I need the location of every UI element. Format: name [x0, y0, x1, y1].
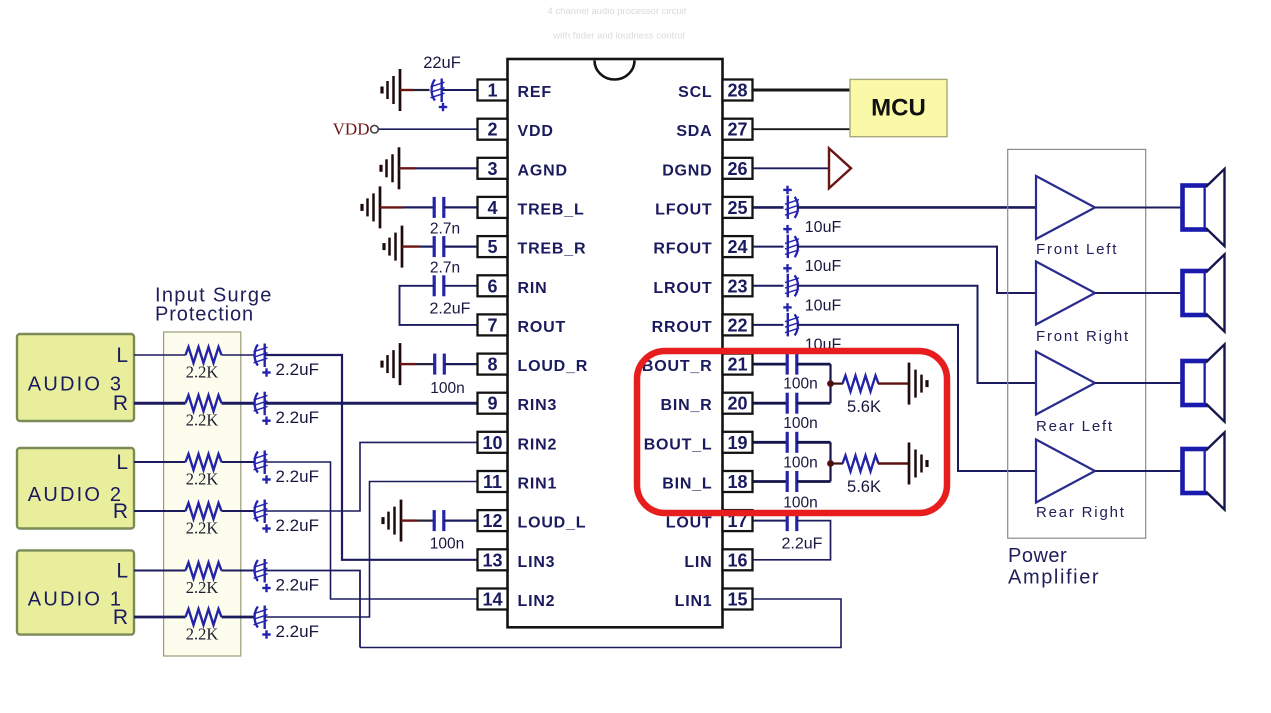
capacitor C3 2.2uF [254, 451, 268, 475]
svg-text:Amplifier: Amplifier [1008, 567, 1100, 589]
pin box 14 [478, 589, 508, 610]
svg-text:25: 25 [727, 198, 747, 218]
pin box 22 [723, 314, 753, 335]
svg-text:L: L [116, 451, 128, 474]
polarity plus (C15) [783, 264, 791, 272]
svg-text:RIN: RIN [518, 280, 548, 297]
pin box 3 [478, 158, 508, 179]
svg-text:14: 14 [482, 590, 502, 610]
wire LROUT to amplifier [797, 286, 1036, 383]
resistor R2 2.2K [186, 395, 222, 411]
wire LOUT stub [753, 520, 787, 522]
svg-text:BIN_L: BIN_L [662, 476, 712, 493]
wire LFOUT to amplifier [797, 206, 1036, 209]
ground at REF [382, 69, 400, 111]
svg-text:15: 15 [727, 590, 747, 610]
capacitor C10 2.2uF [434, 275, 444, 296]
wire R8 to ground [878, 462, 909, 464]
wire to C12 [417, 519, 434, 521]
capacitor C12 100n [434, 510, 444, 531]
pin box 16 [723, 549, 753, 570]
wire AUDIO3 R resistor to capacitor [222, 402, 255, 405]
svg-text:BOUT_L: BOUT_L [644, 436, 713, 453]
svg-text:5.6K: 5.6K [847, 398, 881, 416]
svg-text:BOUT_R: BOUT_R [642, 358, 713, 375]
wire SDA to MCU [753, 128, 850, 130]
wire C11 to pin 8 [444, 363, 477, 365]
pin box 8 [478, 354, 508, 375]
wire SCL to MCU [753, 89, 850, 92]
speaker Rear Left [1183, 344, 1225, 421]
wire C12 to pin 12 [444, 519, 478, 521]
svg-text:R: R [113, 606, 128, 629]
svg-text:SCL: SCL [678, 84, 712, 101]
svg-text:VDD: VDD [518, 123, 554, 140]
svg-text:10uF: 10uF [805, 297, 842, 314]
pin box 12 [478, 510, 508, 531]
svg-text:2.2uF: 2.2uF [276, 516, 319, 535]
capacitor C11 100n [435, 354, 445, 375]
wire U3 output [1095, 292, 1183, 294]
svg-text:2.2K: 2.2K [186, 363, 219, 382]
wire ground to C9 [402, 245, 420, 247]
svg-text:2.2uF: 2.2uF [276, 467, 319, 486]
wire AUDIO1 R box to resistor [134, 616, 186, 619]
svg-text:Front Left: Front Left [1036, 241, 1118, 258]
wire AUDIO1 R resistor to capacitor [222, 616, 255, 619]
pin box 5 [478, 236, 508, 257]
svg-text:LFOUT: LFOUT [655, 201, 712, 218]
svg-text:2.2K: 2.2K [186, 519, 219, 538]
wire to C7 [414, 89, 430, 91]
pin box 25 [723, 197, 753, 218]
capacitor C1 2.2uF [254, 344, 268, 368]
capacitor C19 100n [787, 432, 797, 453]
polarity plus (C13) [783, 186, 791, 194]
wire LROUT stub [753, 285, 784, 287]
pin box 17 [723, 510, 753, 531]
svg-text:MCU: MCU [871, 95, 926, 122]
svg-text:TREB_L: TREB_L [518, 201, 585, 218]
svg-text:LOUD_R: LOUD_R [518, 358, 589, 375]
svg-text:LOUD_L: LOUD_L [518, 515, 587, 532]
pin box 6 [478, 275, 508, 296]
pin box 10 [478, 432, 508, 453]
wire LFOUT stub [753, 206, 784, 209]
svg-text:with fader and loudness contro: with fader and loudness control [552, 31, 685, 42]
polarity plus (AUDIO1 L) [262, 584, 270, 592]
svg-text:24: 24 [727, 237, 747, 257]
audio source box AUDIO 1 [17, 550, 134, 634]
svg-text:Power: Power [1008, 545, 1067, 567]
ground at LOUD_R [382, 343, 400, 385]
resistor R4 2.2K [186, 503, 222, 519]
pin box 20 [723, 393, 753, 414]
svg-text:2.7n: 2.7n [430, 221, 460, 238]
svg-text:VDD: VDD [333, 120, 370, 139]
svg-text:AGND: AGND [518, 162, 568, 179]
svg-text:18: 18 [727, 472, 747, 492]
capacitor C9 2.7n [434, 236, 444, 257]
svg-text:2.2uF: 2.2uF [276, 622, 319, 641]
junction node B [827, 460, 834, 467]
svg-text:100n: 100n [783, 495, 817, 512]
svg-text:DGND: DGND [662, 162, 712, 179]
svg-text:10uF: 10uF [805, 219, 842, 236]
capacitor C17 100n [787, 354, 797, 375]
svg-text:4 channel audio processor circ: 4 channel audio processor circuit [548, 6, 687, 17]
wire C8 to pin 4 [444, 206, 478, 208]
wire AUDIO2 L box to resistor [134, 461, 186, 463]
wire bottom rail to LIN1 (pin15) [360, 599, 841, 648]
wire AUDIO3 L to LIN3 (pin13) [265, 355, 478, 560]
wire AUDIO2 L resistor to capacitor [222, 461, 255, 463]
pin box 19 [723, 432, 753, 453]
wire to C11 [416, 363, 434, 365]
wire RFOUT stub [753, 246, 784, 248]
resistor R5 2.2K [186, 563, 222, 579]
wire BIN_L to node [797, 480, 831, 483]
svg-text:100n: 100n [430, 536, 464, 553]
svg-text:LROUT: LROUT [653, 280, 712, 297]
svg-text:LIN3: LIN3 [518, 554, 556, 571]
pin box 9 [478, 393, 508, 414]
resistor R8 5.6K [843, 456, 879, 472]
ground at LOUD_L [383, 500, 401, 542]
svg-text:R: R [113, 500, 128, 523]
polarity plus (AUDIO1 R) [262, 630, 270, 638]
IC pin-1 notch [595, 61, 635, 80]
ground at R8 [909, 443, 927, 485]
pin box 26 [723, 158, 753, 179]
wire RROUT to amplifier [797, 325, 1036, 471]
op-amp U5 (Rear Right) [1036, 440, 1095, 503]
svg-text:BIN_R: BIN_R [660, 397, 712, 414]
svg-text:2: 2 [487, 120, 497, 140]
wire node to R8 [831, 462, 844, 464]
capacitor C15 10uF [785, 274, 799, 298]
svg-text:11: 11 [483, 472, 502, 492]
svg-text:21: 21 [727, 355, 747, 375]
svg-text:1: 1 [487, 81, 497, 101]
wire BOUT_R stub [753, 363, 787, 366]
svg-text:LIN: LIN [684, 554, 712, 571]
svg-text:Protection: Protection [155, 304, 254, 326]
ground at R7 [909, 363, 927, 405]
wire BOUT_R to node [797, 363, 831, 366]
node VDD terminal [371, 125, 379, 133]
svg-text:TREB_R: TREB_R [518, 241, 587, 258]
speaker Front Left [1183, 169, 1225, 246]
svg-text:RIN3: RIN3 [518, 397, 558, 414]
wire U5 output [1095, 470, 1183, 472]
pin box 18 [723, 471, 753, 492]
wire AUDIO2 R resistor to capacitor [222, 510, 255, 512]
svg-text:6: 6 [487, 276, 497, 296]
svg-text:2.2K: 2.2K [186, 411, 219, 430]
wire R7 to ground [878, 382, 909, 384]
svg-text:L: L [116, 560, 128, 583]
wire AGND ground maroon [399, 167, 416, 169]
wire ground to C11 [400, 363, 416, 365]
wire AUDIO1 L box to resistor [134, 570, 186, 572]
wire AUDIO2 R box to resistor [134, 510, 186, 512]
svg-text:23: 23 [727, 276, 747, 296]
capacitor C14 10uF [785, 235, 799, 259]
red highlight box [637, 351, 947, 513]
pin box 23 [723, 275, 753, 296]
pin box 21 [723, 354, 753, 375]
svg-text:RIN1: RIN1 [518, 476, 558, 493]
capacitor C18 100n [787, 393, 797, 414]
svg-text:10uF: 10uF [805, 258, 842, 275]
wire C10 to pin 6 [444, 285, 478, 287]
resistor R6 2.2K [186, 609, 222, 625]
capacitor C5 2.2uF [254, 559, 268, 583]
resistor R3 2.2K [186, 454, 222, 470]
wire BOUT_R/BIN_R join [829, 364, 831, 403]
svg-text:2.2uF: 2.2uF [276, 576, 319, 595]
svg-text:100n: 100n [783, 376, 817, 393]
svg-text:22: 22 [727, 315, 747, 335]
wire BIN_R to node [797, 402, 831, 405]
op-amp U3 (Front Right) [1036, 262, 1095, 325]
svg-text:28: 28 [727, 81, 747, 101]
wire AUDIO1 R to RIN1 (pin11) [265, 482, 478, 618]
wire VDD to pin 2 [379, 128, 478, 130]
svg-text:2.2uF: 2.2uF [276, 408, 319, 427]
svg-text:2.2uF: 2.2uF [276, 360, 319, 379]
svg-text:26: 26 [727, 159, 747, 179]
svg-text:AUDIO 2: AUDIO 2 [28, 484, 123, 506]
capacitor C8 2.7n [434, 197, 444, 218]
svg-text:100n: 100n [430, 380, 464, 397]
MCU block [850, 79, 947, 136]
wire U2 output [1095, 207, 1183, 209]
capacitor C21 2.2uF [787, 510, 797, 531]
svg-text:3: 3 [487, 159, 497, 179]
polarity plus (AUDIO2 R) [262, 524, 270, 532]
svg-text:20: 20 [727, 394, 747, 414]
wire ground to C8 [380, 206, 403, 208]
svg-text:2.7n: 2.7n [430, 260, 460, 277]
wire ground to C7 [400, 89, 414, 91]
svg-text:2.2K: 2.2K [186, 470, 219, 489]
ground at TREB_R [384, 226, 402, 268]
svg-text:16: 16 [727, 550, 747, 570]
svg-text:Rear Right: Rear Right [1036, 504, 1126, 521]
wire U4 output [1095, 382, 1183, 384]
svg-text:LIN1: LIN1 [675, 593, 713, 610]
svg-text:2.2K: 2.2K [186, 625, 219, 644]
pin box 13 [478, 549, 508, 570]
svg-text:2.2uF: 2.2uF [430, 301, 471, 318]
wire C7 to pin 1 [443, 89, 478, 91]
polarity plus (AUDIO2 L) [262, 475, 270, 483]
svg-text:L: L [116, 344, 128, 367]
wire RFOUT to amplifier [797, 247, 1036, 293]
wire BIN_L stub [753, 480, 787, 483]
polarity plus (AUDIO3 R) [262, 417, 270, 425]
audio source box AUDIO 2 [17, 448, 134, 529]
capacitor C13 10uF [785, 195, 799, 219]
svg-text:22uF: 22uF [423, 54, 461, 72]
polarity plus (C16) [783, 303, 791, 311]
wire BOUT_L stub [753, 441, 787, 444]
svg-text:12: 12 [482, 511, 502, 531]
svg-text:SDA: SDA [676, 123, 712, 140]
wire LOUT to LIN loop [753, 521, 831, 560]
svg-text:100n: 100n [783, 455, 817, 472]
pin box 27 [723, 119, 753, 140]
wire AUDIO1 L resistor to capacitor [222, 570, 255, 572]
wire AUDIO2 R to RIN2 (pin10) [265, 442, 478, 511]
svg-text:2.2uF: 2.2uF [782, 536, 823, 553]
resistor R1 2.2K [186, 347, 222, 363]
svg-text:AUDIO 3: AUDIO 3 [28, 374, 123, 396]
svg-text:RROUT: RROUT [652, 319, 713, 336]
wire AUDIO1 L to bottom rail [265, 571, 360, 648]
svg-text:Front Right: Front Right [1036, 328, 1130, 345]
power amplifier box [1008, 149, 1146, 538]
svg-text:R: R [113, 392, 128, 415]
svg-text:LOUT: LOUT [666, 515, 713, 532]
pin box 2 [478, 119, 508, 140]
svg-text:8: 8 [487, 355, 497, 375]
wire RROUT stub [753, 324, 784, 326]
svg-text:4: 4 [487, 198, 497, 218]
svg-text:AUDIO 1: AUDIO 1 [28, 589, 123, 611]
svg-text:RFOUT: RFOUT [653, 241, 712, 258]
op-amp U2 (Front Left) [1036, 176, 1095, 239]
speaker Rear Right [1183, 432, 1225, 509]
wire DGND [753, 167, 829, 169]
wire to C9 [420, 246, 434, 248]
svg-text:RIN2: RIN2 [518, 436, 558, 453]
capacitor C2 2.2uF [254, 392, 268, 416]
wire BOUT_L/BIN_L join [829, 442, 831, 481]
wire node to R7 [831, 383, 844, 385]
polarity plus (C14) [783, 225, 791, 233]
wire BIN_R stub [753, 402, 787, 405]
svg-text:5.6K: 5.6K [847, 478, 881, 496]
svg-text:27: 27 [727, 120, 747, 140]
svg-text:9: 9 [487, 394, 497, 414]
capacitor C6 2.2uF [254, 606, 268, 630]
IC U1 body [508, 59, 723, 627]
svg-text:LIN2: LIN2 [518, 593, 556, 610]
svg-text:10: 10 [482, 433, 502, 453]
speaker Front Right [1183, 254, 1225, 331]
pin box 24 [723, 236, 753, 257]
pin box 11 [478, 471, 508, 492]
ground at AGND [381, 147, 399, 189]
capacitor C20 100n [787, 471, 797, 492]
svg-text:REF: REF [518, 84, 552, 101]
capacitor C7 22uF [431, 79, 445, 103]
wire to C8 [403, 206, 434, 208]
pin box 1 [478, 80, 508, 101]
capacitor C16 10uF [785, 313, 799, 337]
svg-text:ROUT: ROUT [518, 319, 567, 336]
polarity plus (AUDIO3 L) [262, 368, 270, 376]
svg-text:Rear Left: Rear Left [1036, 418, 1114, 435]
svg-text:19: 19 [727, 433, 747, 453]
svg-text:2.2K: 2.2K [186, 578, 219, 597]
pin box 4 [478, 197, 508, 218]
wire AUDIO2 L to LIN2 (pin14) [265, 462, 478, 599]
wire AUDIO3 L resistor to capacitor [222, 354, 255, 356]
wire AUDIO3 R to RIN3 (pin9) [265, 402, 478, 405]
pin box 7 [478, 314, 508, 335]
ground at TREB_L [362, 186, 380, 228]
junction node A [827, 380, 834, 387]
wire C9 to pin 5 [444, 246, 478, 248]
svg-text:100n: 100n [783, 415, 817, 432]
polarity plus (C7) [439, 103, 447, 111]
wire BOUT_L to node [797, 441, 831, 444]
resistor R7 5.6K [843, 376, 879, 392]
DGND triangle [829, 148, 851, 188]
wire AUDIO3 L box to resistor [134, 354, 186, 356]
svg-text:5: 5 [487, 237, 497, 257]
wire AUDIO3 R box to resistor [134, 402, 186, 405]
pin box 28 [723, 80, 753, 101]
wire AGND to pin 3 [416, 167, 478, 169]
capacitor C4 2.2uF [254, 500, 268, 524]
input surge protection panel [164, 332, 241, 656]
pin box 15 [723, 589, 753, 610]
wire RIN loop to ROUT (pin7) [400, 286, 478, 325]
op-amp U4 (Rear Left) [1036, 352, 1095, 415]
svg-text:13: 13 [482, 550, 502, 570]
wire ground to C12 [401, 519, 417, 521]
svg-text:7: 7 [487, 315, 497, 335]
audio source box AUDIO 3 [17, 334, 134, 421]
